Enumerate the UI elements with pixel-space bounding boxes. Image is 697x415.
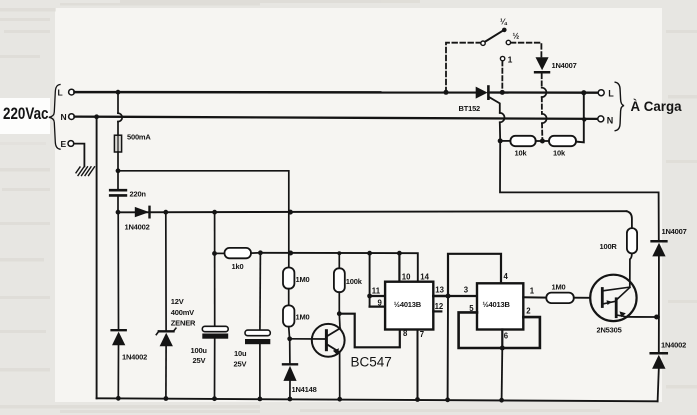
wire fuse line upper	[117, 92, 119, 113]
wire dashed contact1 to L	[501, 61, 503, 92]
diode 1N4002 right	[651, 317, 686, 401]
node dot pin4 net ground	[445, 397, 450, 402]
svg-text:N: N	[61, 112, 67, 122]
node junction BC547 base	[287, 336, 292, 341]
diode zener 12V	[156, 212, 196, 398]
wire tie line pins 11 and 9	[369, 253, 371, 306]
wire 10k right to L output	[576, 93, 584, 143]
wire left rail down	[96, 117, 98, 399]
svg-text:220n: 220n	[130, 190, 147, 199]
svg-text:12: 12	[435, 302, 444, 311]
node junction L dashed takeoff	[444, 90, 449, 95]
svg-text:7: 7	[420, 330, 424, 339]
svg-text:1N4002: 1N4002	[125, 223, 150, 232]
thyristor BT152	[459, 87, 489, 113]
svg-text:8: 8	[403, 329, 408, 338]
node N output terminal	[598, 115, 614, 125]
wire dashed half contact to diode	[511, 43, 542, 57]
wire hop gate over N	[500, 113, 505, 122]
node N input terminal	[61, 112, 75, 122]
wire N line	[74, 117, 597, 119]
svg-text:9: 9	[378, 299, 383, 308]
node E input terminal	[61, 139, 74, 149]
svg-text:3: 3	[464, 286, 469, 295]
node dot bottom 10u	[258, 397, 263, 402]
switch contact half	[506, 40, 510, 44]
node small junction on N crossing	[582, 117, 586, 121]
wire between 1M0s	[288, 289, 290, 306]
node junction 100u rail top	[212, 210, 217, 215]
node junction pin10 on rail	[397, 251, 402, 256]
resistor 1M0 lower	[283, 305, 310, 326]
svg-text:1: 1	[530, 287, 535, 296]
node junction 1k0 left	[212, 251, 217, 256]
wire pin6 node to ground rail	[501, 348, 504, 400]
resistor 10k right	[549, 136, 576, 158]
svg-text:12V: 12V	[171, 297, 184, 306]
svg-text:1k0: 1k0	[232, 262, 244, 271]
wire pin5 loop to pin2	[459, 312, 540, 348]
node junction collector	[337, 311, 342, 316]
wire L line (mains, input to BT152)	[74, 91, 475, 94]
svg-text:2: 2	[526, 307, 531, 316]
wire hop over N	[118, 113, 122, 121]
node junction zener top	[163, 210, 168, 215]
svg-text:4: 4	[504, 272, 509, 281]
capacitor 10u 25V electrolytic	[234, 253, 271, 399]
svg-text:À Carga: À Carga	[631, 99, 682, 114]
node junction 100k top	[337, 251, 341, 255]
svg-text:100R: 100R	[600, 242, 618, 251]
svg-text:1N4007: 1N4007	[552, 61, 577, 70]
node junction pin13 pin3	[446, 294, 451, 299]
wire 1M0 to 2N5305 base	[574, 297, 590, 299]
svg-text:1N4002: 1N4002	[661, 341, 686, 350]
svg-text:1N4002: 1N4002	[122, 353, 147, 362]
brace left	[49, 85, 60, 150]
svg-text:10k: 10k	[515, 149, 528, 158]
transistor Q1 BC547	[312, 324, 392, 370]
wire 1M0 to base node	[288, 327, 291, 339]
svg-text:L: L	[608, 89, 614, 99]
resistor 1M0 upper	[283, 268, 310, 289]
wire hop over L	[542, 88, 547, 97]
node L input terminal	[58, 87, 75, 97]
svg-text:2N5305: 2N5305	[597, 325, 622, 334]
ground earth symbol	[76, 167, 95, 176]
op-amp U2 half 4013B flip-flop	[477, 283, 523, 329]
fuse 500mA	[114, 132, 151, 152]
node dot emitter on ground rail	[337, 397, 342, 402]
svg-text:100k: 100k	[346, 277, 363, 286]
svg-text:13: 13	[435, 286, 444, 295]
wire DC rail y212	[118, 211, 627, 212]
wire rail y171 to right and down at x289	[118, 171, 289, 268]
svg-text:500mA: 500mA	[127, 132, 151, 141]
resistor 1M0 horizontal	[546, 282, 574, 303]
node junction contact1 on L	[500, 90, 505, 95]
node junction pin6 loop	[500, 346, 505, 351]
diode 1N4148	[283, 339, 317, 399]
node junction pins 11-9 tie on rail	[367, 251, 372, 256]
wire logic rail y253	[260, 253, 417, 282]
wire bottom ground rail	[97, 398, 658, 401]
switch contact quarter	[502, 28, 507, 33]
svg-text:6: 6	[504, 332, 509, 341]
svg-text:½4013B: ½4013B	[483, 300, 511, 309]
svg-text:1M0: 1M0	[296, 313, 310, 322]
wire E earth lead	[74, 144, 85, 167]
wire base node to BC547	[290, 338, 325, 340]
wire BT152 gate	[489, 97, 500, 113]
node dot pin6 ground	[499, 398, 504, 403]
node dot pin7 ground	[415, 397, 420, 402]
wire collector node to IC1 pin8	[339, 314, 400, 348]
node junction x289 on DC rail	[288, 210, 293, 215]
brace right	[615, 82, 624, 131]
svg-text:1N4007: 1N4007	[662, 227, 687, 236]
wire pin 1 stub	[523, 296, 546, 298]
svg-text:220Vac: 220Vac	[3, 105, 49, 123]
wire BC547 emitter down	[339, 352, 341, 399]
wire L line (BT152 cathode to output)	[488, 91, 598, 93]
transistor Q2 2N5305 darlington	[590, 275, 636, 335]
resistor 10k left	[500, 136, 536, 158]
svg-text:10u: 10u	[234, 349, 247, 358]
svg-text:10k: 10k	[553, 149, 566, 158]
wire pin 12 stub	[433, 310, 441, 312]
svg-text:½: ½	[513, 31, 520, 40]
node junction x289 on logic rail	[288, 251, 293, 256]
diode 1N4007 right	[652, 227, 687, 317]
node junction on L output	[581, 90, 586, 95]
wire 2N5305 collector to 100R	[630, 253, 632, 287]
node L output terminal	[598, 89, 614, 99]
op-amp U1 half 4013B flip-flop	[385, 282, 433, 330]
wire dashed diode down with hops	[541, 74, 543, 88]
node junction N to left rail	[94, 114, 99, 119]
svg-text:½4013B: ½4013B	[394, 300, 422, 309]
svg-text:10: 10	[402, 272, 411, 281]
node dot bottom 100u	[212, 396, 217, 401]
node junction fuse rail	[116, 168, 121, 173]
wire pin4 net down to ground rail	[447, 296, 449, 400]
wire pin13 to pin3	[448, 295, 477, 297]
wire dashed from L up to switch	[446, 43, 481, 93]
svg-text:E: E	[61, 139, 67, 149]
svg-text:25V: 25V	[193, 356, 206, 365]
node junction emitter right rail	[654, 315, 659, 320]
wire fuse to node	[117, 152, 119, 171]
resistor 100R	[600, 211, 638, 253]
wire pin 6 stub	[501, 330, 503, 349]
wire pin 7 stub to ground	[417, 330, 419, 400]
node dot bottom zener	[164, 396, 169, 401]
wire pin 10 stub	[398, 253, 400, 282]
node junction between 10k resistors	[540, 139, 545, 144]
svg-text:25V: 25V	[234, 359, 247, 368]
svg-text:ZENER: ZENER	[171, 318, 196, 327]
node junction L to fuse line	[116, 90, 121, 95]
capacitor 100u 25V electrolytic	[191, 326, 229, 398]
svg-text:14: 14	[420, 272, 429, 281]
wire x214 vertical	[214, 212, 216, 326]
capacitor 220n	[110, 171, 146, 212]
resistor 100k	[334, 253, 363, 314]
wire pin 13 stub	[433, 295, 448, 298]
node dot bottom 1N4148	[288, 397, 293, 402]
svg-text:BT152: BT152	[459, 104, 481, 113]
switch contact 1	[500, 56, 504, 60]
svg-text:100u: 100u	[191, 346, 208, 355]
node junction DC rail left	[116, 210, 121, 215]
wire pin13 node up over to pin4	[448, 254, 501, 296]
wire pin 9 stub	[370, 306, 386, 308]
svg-text:1M0: 1M0	[296, 275, 310, 284]
svg-text:1N4148: 1N4148	[292, 385, 317, 394]
svg-text:1: 1	[508, 54, 513, 64]
wire 2N5305 emitter to right rail	[627, 316, 657, 318]
svg-text:N: N	[607, 115, 614, 125]
switch pivot	[481, 41, 485, 45]
svg-text:11: 11	[372, 286, 381, 295]
switch arm	[485, 31, 503, 42]
resistor 1k0	[215, 248, 261, 271]
wire gate node down and right to 1N4007	[500, 141, 659, 241]
svg-text:BC547: BC547	[351, 355, 392, 370]
wire BC547 collector up	[338, 314, 341, 329]
diode 1N4002 vertical left	[112, 212, 148, 398]
node junction pin11	[367, 294, 372, 299]
diode 1N4002 horizontal	[125, 207, 150, 232]
wire hop over N	[542, 114, 547, 123]
node junction gate 10k	[498, 138, 503, 143]
svg-text:400mV: 400mV	[171, 308, 194, 317]
svg-text:L: L	[58, 87, 63, 97]
svg-text:1M0: 1M0	[552, 282, 566, 291]
node dot bottom 1N4002	[116, 396, 121, 401]
wire pin 11 stub	[370, 295, 386, 297]
diode 1N4007 top	[535, 57, 577, 72]
node junction 1k0 right / 10u	[258, 250, 263, 255]
